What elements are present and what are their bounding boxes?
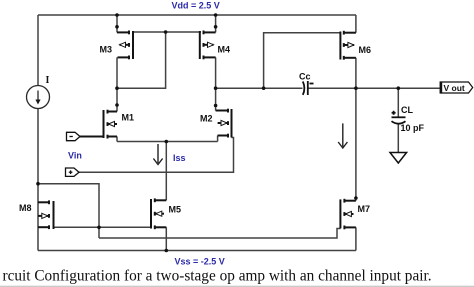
wire left branch from Vdd to current source I <box>37 15 39 86</box>
wire M1 source drop <box>116 137 118 142</box>
svg-text:M7: M7 <box>358 204 371 214</box>
svg-text:Cc: Cc <box>299 72 311 82</box>
wire M5 source to Vss rail <box>165 227 167 250</box>
wire M2 gate riser to +input <box>79 138 234 173</box>
svg-text:V out: V out <box>444 83 465 93</box>
wire M6 source to Vdd rail <box>355 15 357 33</box>
svg-text:M2: M2 <box>200 114 213 124</box>
svg-text:Vss = -2.5 V: Vss = -2.5 V <box>175 257 225 267</box>
ground (CL) <box>390 153 407 164</box>
wire bias node to M8 gate junction <box>38 184 99 238</box>
node dot M3 bulk tie <box>115 25 119 29</box>
wire current source I to bias node <box>37 109 39 251</box>
transistor M6 (PMOS) <box>340 31 356 60</box>
wire tail node M1/M2 sources <box>117 141 218 143</box>
node Vout output flag <box>440 82 473 94</box>
node dot tail <box>165 140 169 144</box>
svg-text:M6: M6 <box>359 45 372 55</box>
wire CL to ground <box>397 124 399 153</box>
current source I <box>27 86 50 109</box>
node dot M5 source on Vss rail <box>165 249 169 253</box>
node dot M1 drain <box>115 103 119 107</box>
svg-text:Vin: Vin <box>68 150 82 160</box>
wire M3 source to Vdd rail <box>116 15 118 32</box>
node dot M6 gate tap <box>262 86 266 90</box>
wire M3 gate to M4 gate <box>133 31 201 33</box>
transistor M8 (NMOS) <box>38 200 54 229</box>
svg-text:M5: M5 <box>169 205 182 215</box>
capacitor Cc <box>303 81 314 95</box>
wire Vss bottom rail <box>38 250 356 252</box>
wire M2 source drop <box>217 136 219 142</box>
input buffer minus (Vin-) <box>67 132 81 140</box>
wire node A first stage output to Cc <box>216 87 303 89</box>
node dot diode connection on M3 drain <box>115 86 119 90</box>
page rule line <box>0 285 474 287</box>
svg-text:M3: M3 <box>100 45 113 55</box>
transistor M5 (NMOS) <box>151 198 166 229</box>
node dot M8 gate junction <box>97 226 101 230</box>
Iss current arrow <box>153 144 162 165</box>
wire M4 drain to M2 drain <box>215 57 217 110</box>
node dot CL tap <box>397 86 401 90</box>
wire M3 drain to M1 drain <box>116 57 118 111</box>
svg-text:M8: M8 <box>19 203 32 213</box>
node dot rail/M4 source <box>214 13 218 17</box>
wire M8 gate to M5 gate <box>54 226 152 228</box>
input buffer plus (Vin+) <box>66 168 80 176</box>
svg-text:Iss: Iss <box>173 153 186 163</box>
transistor M7 (NMOS) <box>340 199 356 230</box>
transistor M2 (NMOS) <box>216 109 232 138</box>
wire tail node to M5 drain <box>165 142 167 201</box>
transistor M3 (PMOS) <box>117 31 133 60</box>
wire M7 source to Vss rail <box>355 227 357 250</box>
svg-text:CL: CL <box>401 105 413 115</box>
node dot first stage output <box>214 86 218 90</box>
node dot bias <box>36 182 40 186</box>
svg-text:rcuit Configuration for a two-: rcuit Configuration for a two-stage op a… <box>3 268 432 285</box>
node dot output column <box>354 86 358 90</box>
svg-text:M1: M1 <box>122 113 135 123</box>
wire CL branch top <box>397 88 399 117</box>
wire Vdd top rail <box>38 14 356 16</box>
node dot mirror gate tap <box>164 30 168 34</box>
node dot M7 drain <box>354 196 358 200</box>
transistor M1 (NMOS) <box>80 110 117 139</box>
svg-text:I: I <box>46 75 50 86</box>
wire M6 gate riser <box>264 33 341 88</box>
wire M7 drain to output node <box>355 88 357 201</box>
wire Cc to output node <box>308 87 440 89</box>
wire mirror gate to M3 drain (diode connection) <box>117 32 166 88</box>
svg-text:M4: M4 <box>218 45 231 55</box>
M7 bias current arrow <box>338 123 347 148</box>
node dot rail/M3 source <box>115 13 119 17</box>
wire M4 source to Vdd rail <box>215 15 217 32</box>
wire bias line to M7 gate <box>99 229 340 239</box>
svg-text:10 pF: 10 pF <box>401 123 425 133</box>
node dot M2 drain <box>214 104 218 108</box>
svg-text:Vdd = 2.5 V: Vdd = 2.5 V <box>172 1 220 11</box>
wire M6 drain to output node <box>355 58 357 88</box>
capacitor CL 10pF <box>392 111 406 124</box>
node dot M4 bulk tie <box>214 25 218 29</box>
transistor M4 (PMOS) <box>200 31 216 60</box>
